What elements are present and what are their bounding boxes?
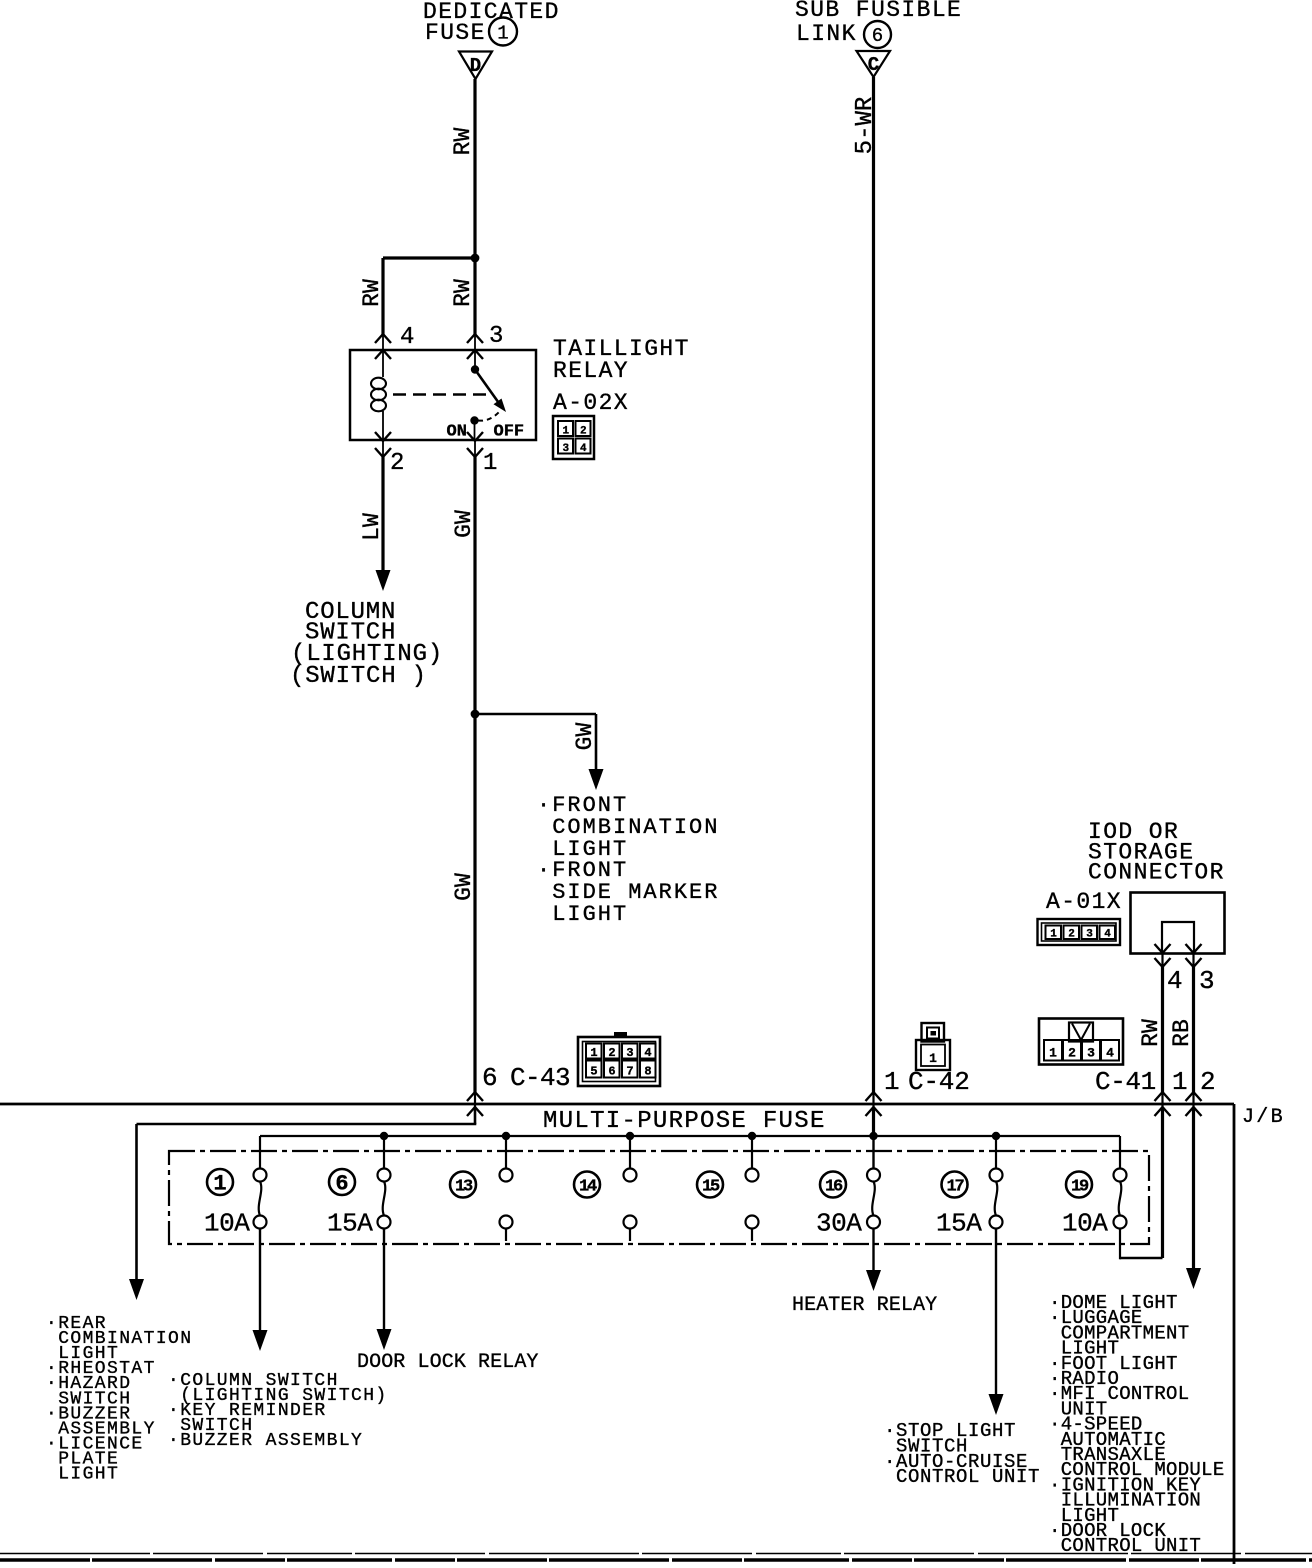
svg-text:GW: GW <box>451 510 477 538</box>
svg-text:SUB FUSIBLE: SUB FUSIBLE <box>795 0 962 23</box>
svg-text:2: 2 <box>580 426 587 438</box>
svg-text:1: 1 <box>562 426 569 438</box>
svg-text:15A: 15A <box>936 1209 982 1239</box>
svg-text:A-01X: A-01X <box>1046 889 1122 915</box>
svg-text:4: 4 <box>580 443 587 455</box>
svg-text:1: 1 <box>929 1051 937 1066</box>
svg-text:CONTROL UNIT: CONTROL UNIT <box>884 1466 1040 1488</box>
svg-text:15: 15 <box>702 1178 720 1197</box>
svg-text:30A: 30A <box>816 1209 862 1239</box>
svg-text:LINK: LINK <box>796 21 857 47</box>
svg-text:C-43: C-43 <box>510 1063 570 1093</box>
svg-text:LIGHT: LIGHT <box>46 1465 119 1485</box>
svg-text:6: 6 <box>608 1065 615 1079</box>
svg-text:16: 16 <box>825 1178 843 1197</box>
svg-text:·BUZZER ASSEMBLY: ·BUZZER ASSEMBLY <box>168 1431 363 1451</box>
svg-text:15A: 15A <box>327 1209 373 1239</box>
svg-text:J/B: J/B <box>1242 1106 1285 1129</box>
svg-text:5: 5 <box>590 1065 597 1079</box>
svg-text:10A: 10A <box>204 1209 250 1239</box>
svg-text:4: 4 <box>1167 966 1183 996</box>
svg-text:C-42: C-42 <box>908 1067 970 1097</box>
svg-text:RW: RW <box>450 279 476 307</box>
svg-text:1: 1 <box>483 450 497 477</box>
svg-text:C: C <box>868 54 879 76</box>
svg-text:7: 7 <box>626 1065 633 1079</box>
svg-text:4: 4 <box>400 324 414 351</box>
svg-text:8: 8 <box>644 1065 651 1079</box>
svg-text:1: 1 <box>1050 929 1057 941</box>
svg-text:1: 1 <box>884 1067 900 1097</box>
svg-text:4: 4 <box>644 1046 651 1060</box>
svg-text:19: 19 <box>1071 1178 1089 1197</box>
svg-text:RW: RW <box>359 279 385 307</box>
svg-text:2: 2 <box>390 450 404 477</box>
svg-text:2: 2 <box>608 1046 615 1060</box>
svg-text:GW: GW <box>451 873 477 901</box>
svg-text:C-41: C-41 <box>1095 1067 1156 1097</box>
svg-text:MULTI-PURPOSE FUSE: MULTI-PURPOSE FUSE <box>543 1108 826 1135</box>
svg-text:RB: RB <box>1169 1019 1195 1047</box>
svg-text:CONNECTOR: CONNECTOR <box>1088 860 1225 886</box>
svg-text:3: 3 <box>1086 929 1093 941</box>
svg-text:LIGHT: LIGHT <box>537 902 628 927</box>
svg-text:3: 3 <box>1199 966 1215 996</box>
svg-text:5-WR: 5-WR <box>852 97 879 155</box>
svg-text:3: 3 <box>489 323 503 350</box>
svg-text:4: 4 <box>1104 929 1111 941</box>
svg-text:ON: ON <box>447 423 467 442</box>
svg-text:4: 4 <box>1106 1046 1114 1061</box>
svg-text:6: 6 <box>335 1172 348 1197</box>
svg-text:RW: RW <box>450 128 476 156</box>
svg-text:2: 2 <box>1068 929 1075 941</box>
svg-text:6: 6 <box>872 25 883 47</box>
svg-text:2: 2 <box>1068 1046 1076 1061</box>
svg-text:(SWITCH ): (SWITCH ) <box>290 663 427 690</box>
svg-text:GW: GW <box>572 723 598 751</box>
svg-text:1: 1 <box>590 1046 597 1060</box>
svg-text:HEATER RELAY: HEATER RELAY <box>792 1294 937 1317</box>
svg-text:10A: 10A <box>1062 1209 1108 1239</box>
svg-text:3: 3 <box>562 443 569 455</box>
svg-text:1: 1 <box>1172 1067 1188 1097</box>
svg-text:D: D <box>470 55 481 77</box>
svg-text:1: 1 <box>497 23 508 45</box>
svg-text:3: 3 <box>1087 1046 1095 1061</box>
svg-text:FUSE: FUSE <box>425 20 486 46</box>
svg-text:13: 13 <box>455 1178 473 1197</box>
svg-text:RELAY: RELAY <box>553 358 629 384</box>
svg-text:1: 1 <box>213 1172 226 1197</box>
svg-text:6: 6 <box>482 1063 498 1093</box>
svg-text:14: 14 <box>579 1178 597 1197</box>
svg-text:3: 3 <box>626 1046 633 1060</box>
svg-text:OFF: OFF <box>494 423 525 442</box>
svg-text:CONTROL UNIT: CONTROL UNIT <box>1049 1535 1201 1557</box>
svg-text:LW: LW <box>359 513 385 541</box>
svg-text:1: 1 <box>1049 1046 1057 1061</box>
svg-text:2: 2 <box>1200 1067 1216 1097</box>
svg-text:DOOR LOCK RELAY: DOOR LOCK RELAY <box>357 1351 539 1374</box>
svg-text:17: 17 <box>946 1178 964 1197</box>
svg-text:RW: RW <box>1138 1019 1164 1047</box>
svg-text:A-02X: A-02X <box>553 390 629 416</box>
